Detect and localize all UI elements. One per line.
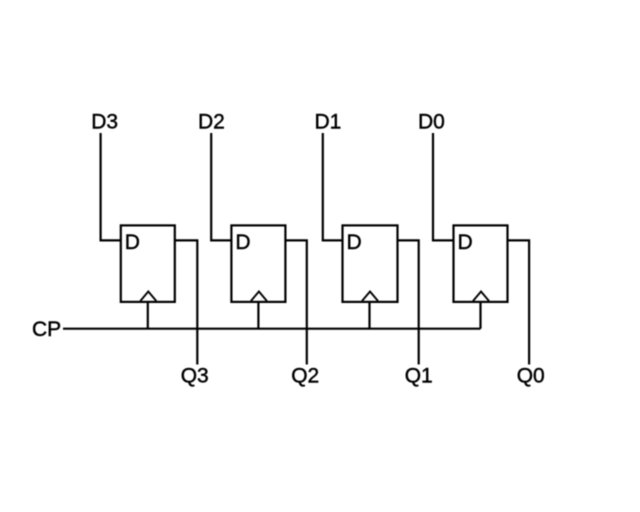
svg-text:Q1: Q1: [405, 364, 433, 387]
svg-text:Q0: Q0: [517, 364, 545, 387]
svg-text:D: D: [458, 231, 473, 254]
svg-text:D0: D0: [418, 111, 445, 134]
svg-text:Q3: Q3: [181, 364, 209, 387]
svg-text:D2: D2: [198, 111, 225, 134]
svg-text:CP: CP: [32, 318, 61, 341]
svg-text:D3: D3: [91, 111, 118, 134]
svg-text:D: D: [347, 231, 362, 254]
svg-text:D1: D1: [315, 111, 342, 134]
svg-text:D: D: [125, 231, 140, 254]
svg-text:Q2: Q2: [291, 364, 319, 387]
svg-text:D: D: [235, 231, 250, 254]
